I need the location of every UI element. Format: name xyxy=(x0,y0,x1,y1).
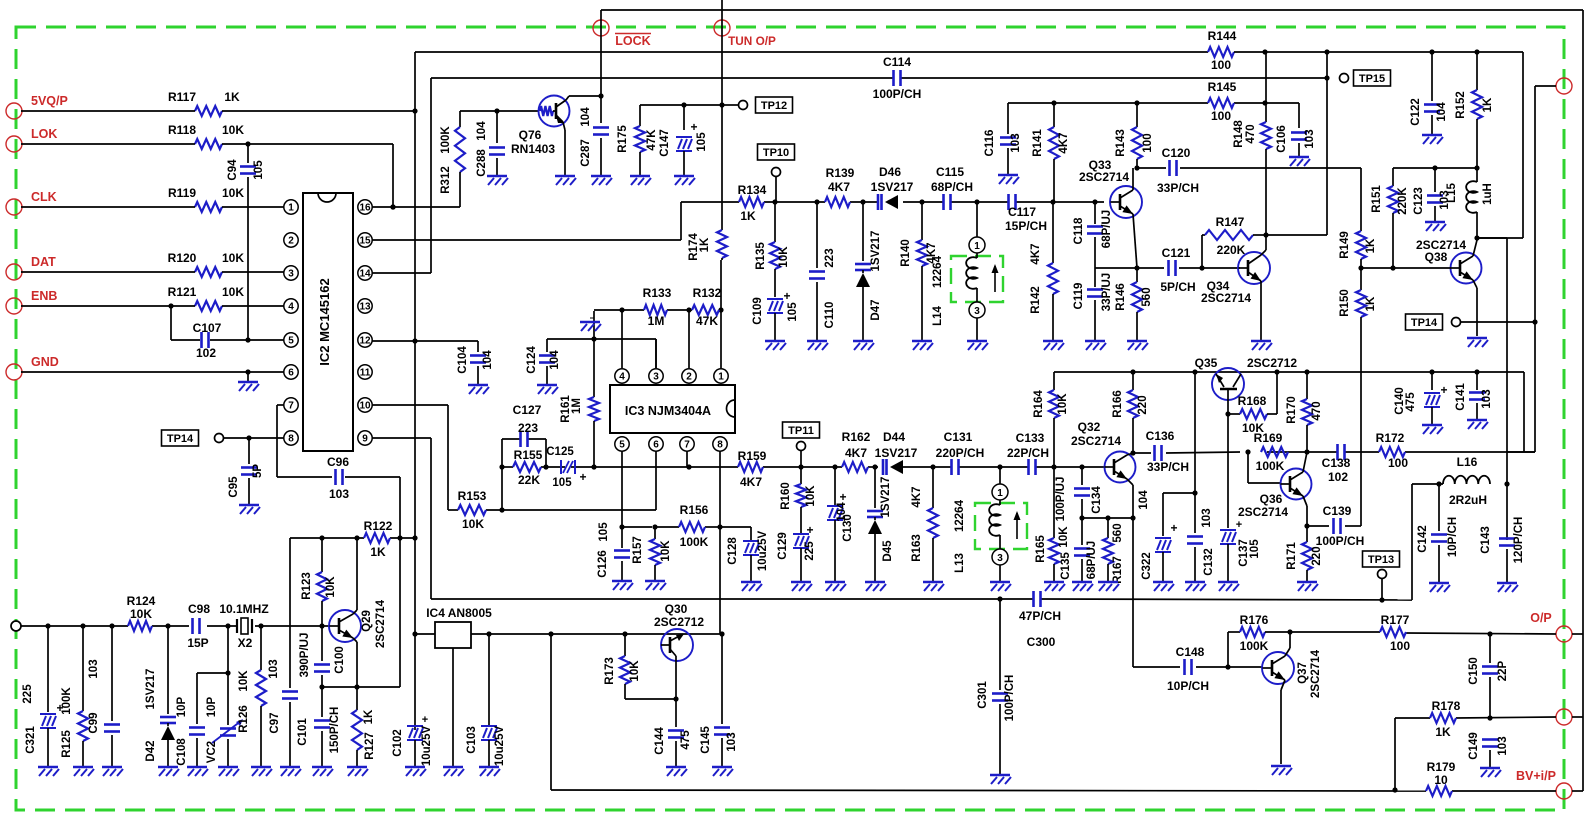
svg-text:R132: R132 xyxy=(693,286,722,300)
inductor L16 xyxy=(1443,455,1510,507)
svg-text:C128: C128 xyxy=(727,537,739,565)
wire emitter row xyxy=(322,538,400,687)
resistor R149 xyxy=(1339,231,1377,271)
svg-text:3: 3 xyxy=(997,553,1003,564)
svg-text:X2: X2 xyxy=(238,636,253,650)
svg-text:220K: 220K xyxy=(1217,243,1246,257)
svg-text:4: 4 xyxy=(619,372,625,383)
svg-text:R166: R166 xyxy=(1112,390,1124,418)
IC2 pin 5 xyxy=(284,333,298,347)
resistor R117 xyxy=(168,90,240,116)
svg-text:R119: R119 xyxy=(168,186,196,200)
wire Q37 emitter xyxy=(1281,680,1285,764)
capacitor C120 xyxy=(1157,146,1199,195)
svg-text:C99: C99 xyxy=(88,712,100,733)
ground C287 xyxy=(591,176,612,185)
svg-text:O/P: O/P xyxy=(1530,611,1552,625)
capacitor C114 xyxy=(873,55,922,101)
svg-text:1K: 1K xyxy=(363,709,375,724)
svg-text:15P: 15P xyxy=(187,636,208,650)
svg-text:1SV217: 1SV217 xyxy=(880,477,892,518)
ground C130 xyxy=(825,582,846,591)
resistor R169 labels xyxy=(1254,431,1285,473)
capacitor C131 xyxy=(936,430,985,475)
svg-text:10K: 10K xyxy=(778,246,790,268)
wire IC4 rail xyxy=(415,631,722,724)
capacitor C140 xyxy=(1394,372,1448,424)
svg-text:5: 5 xyxy=(288,336,294,347)
svg-text:C143: C143 xyxy=(1480,526,1492,554)
capacitor C122 xyxy=(1410,52,1448,134)
test point TP11 xyxy=(783,422,820,467)
capacitor C134 xyxy=(1055,467,1103,521)
connector DAT xyxy=(6,255,56,280)
IC2 pin 14 xyxy=(358,266,372,280)
svg-text:470: 470 xyxy=(1311,401,1323,420)
svg-text:220: 220 xyxy=(1137,395,1149,414)
svg-text:103: 103 xyxy=(1201,508,1213,527)
svg-text:+: + xyxy=(806,523,813,537)
svg-text:2R2uH: 2R2uH xyxy=(1449,493,1487,507)
svg-text:2SC2714: 2SC2714 xyxy=(1079,170,1129,184)
svg-text:103: 103 xyxy=(1010,133,1022,152)
svg-text:C117: C117 xyxy=(1008,205,1036,219)
svg-text:475: 475 xyxy=(1405,392,1417,412)
capacitor C109 xyxy=(752,289,799,340)
svg-text:105: 105 xyxy=(552,477,572,489)
svg-text:10: 10 xyxy=(359,401,371,412)
svg-text:22P: 22P xyxy=(1497,660,1509,681)
svg-text:10.1MHZ: 10.1MHZ xyxy=(219,602,268,616)
wire Q38 collector xyxy=(1473,240,1477,256)
svg-text:5P/CH: 5P/CH xyxy=(1160,280,1195,294)
svg-text:R135: R135 xyxy=(755,242,767,270)
capacitor C94 xyxy=(227,144,265,340)
top bus wire to right edge xyxy=(601,10,1583,791)
resistor R144 xyxy=(1208,29,1237,72)
ground R126 xyxy=(251,767,272,776)
IC2 pin 16 xyxy=(358,200,372,214)
svg-text:105: 105 xyxy=(598,522,610,542)
svg-text:C106: C106 xyxy=(1276,125,1288,153)
svg-text:TP15: TP15 xyxy=(1359,73,1385,85)
svg-text:1uH: 1uH xyxy=(1482,183,1494,205)
svg-text:R162: R162 xyxy=(842,430,871,444)
svg-text:10K: 10K xyxy=(462,517,484,531)
svg-text:1K: 1K xyxy=(1482,97,1494,112)
svg-text:100: 100 xyxy=(1390,639,1410,653)
svg-text:2: 2 xyxy=(686,372,692,383)
svg-text:4K7: 4K7 xyxy=(1058,132,1070,153)
wire main line 2 left xyxy=(546,464,597,469)
svg-text:R123: R123 xyxy=(301,572,313,600)
resistor R166 xyxy=(1112,372,1149,456)
svg-text:R175: R175 xyxy=(617,125,629,153)
capacitor C149 xyxy=(1468,732,1509,767)
svg-text:2SC2714: 2SC2714 xyxy=(1071,434,1121,448)
ground C321 xyxy=(38,767,59,776)
ground R167 xyxy=(1098,582,1119,591)
svg-text:1SV217: 1SV217 xyxy=(871,180,914,194)
resistor R170 xyxy=(1286,372,1323,452)
test point TP13 xyxy=(1363,551,1400,600)
wire C322 column xyxy=(1163,372,1198,536)
ground C126 xyxy=(612,581,633,590)
resistor R141 xyxy=(1032,103,1070,202)
capacitor C103 xyxy=(466,634,506,766)
capacitor C125 xyxy=(546,446,586,489)
svg-text:C102: C102 xyxy=(392,729,404,757)
capacitor C110 xyxy=(809,202,836,340)
svg-text:C129: C129 xyxy=(777,532,789,560)
resistor R143 xyxy=(1115,103,1154,171)
svg-text:68P/UJ: 68P/UJ xyxy=(1086,541,1098,579)
resistor R172 xyxy=(1379,447,1405,457)
svg-text:C301: C301 xyxy=(977,681,989,709)
wire C136 row xyxy=(1133,449,1535,454)
svg-text:10P: 10P xyxy=(176,696,188,717)
svg-text:100P/CH: 100P/CH xyxy=(873,87,922,101)
svg-text:100: 100 xyxy=(1388,456,1408,470)
wire C120 net xyxy=(1137,168,1361,231)
svg-text:C136: C136 xyxy=(1146,429,1175,443)
svg-text:C115: C115 xyxy=(936,165,964,179)
capacitor C143 xyxy=(1480,517,1525,582)
svg-text:R125: R125 xyxy=(61,730,73,758)
resistor R162 xyxy=(842,430,871,472)
svg-text:C119: C119 xyxy=(1073,283,1085,310)
wire IC3 pin3 riser xyxy=(655,339,657,368)
svg-text:C108: C108 xyxy=(176,738,188,766)
svg-text:22K: 22K xyxy=(518,473,540,487)
wire Q32 collector xyxy=(1127,453,1133,455)
ground R140 xyxy=(912,341,933,350)
wire Q29 emitter xyxy=(353,638,360,690)
svg-text:C104: C104 xyxy=(457,346,469,374)
ground L13 xyxy=(990,582,1011,591)
capacitor C104 xyxy=(457,341,494,384)
svg-text:4K7: 4K7 xyxy=(828,180,850,194)
IC2 pin 8 xyxy=(284,431,298,445)
wire bottom rail riser xyxy=(550,634,552,790)
svg-text:C109: C109 xyxy=(752,297,764,325)
resistor R179 xyxy=(1426,760,1456,796)
svg-text:TUN O/P: TUN O/P xyxy=(728,34,776,48)
ground C322 xyxy=(1153,582,1174,591)
wire pin12 xyxy=(372,338,478,343)
transistor Q33 xyxy=(1079,158,1142,218)
capacitor C287 xyxy=(580,96,609,175)
svg-text:C114: C114 xyxy=(883,55,911,69)
resistor R155 xyxy=(513,448,543,487)
ground R171 xyxy=(1297,582,1318,591)
resistor R121 xyxy=(168,285,245,311)
svg-text:C126: C126 xyxy=(597,550,609,578)
svg-text:3: 3 xyxy=(653,372,659,383)
transistor Q37 xyxy=(1262,649,1322,698)
resistor R164 xyxy=(1033,372,1069,467)
IC3 pin 3 xyxy=(649,369,663,383)
svg-text:2SC2714: 2SC2714 xyxy=(1310,649,1322,698)
resistor R139 xyxy=(825,166,855,207)
resistor R146 xyxy=(1115,268,1153,340)
ground C116 xyxy=(998,175,1019,184)
svg-text:1K: 1K xyxy=(224,90,240,104)
svg-text:104: 104 xyxy=(580,107,592,127)
connector GND xyxy=(6,355,59,380)
ground C140 xyxy=(1422,425,1443,434)
capacitor C100 xyxy=(299,626,346,690)
svg-text:10K: 10K xyxy=(222,186,244,200)
ground C135 xyxy=(1072,582,1093,591)
resistor R159 xyxy=(738,449,767,489)
svg-text:Q32: Q32 xyxy=(1078,420,1101,434)
capacitor C123 xyxy=(1413,168,1451,221)
ground C95 xyxy=(239,505,260,514)
ground C147 xyxy=(674,176,695,185)
IC2 pin 13 xyxy=(358,299,372,313)
svg-text:D46: D46 xyxy=(879,165,901,179)
svg-text:16: 16 xyxy=(359,203,371,214)
ground C97 xyxy=(280,767,301,776)
ground D45 xyxy=(865,582,886,591)
wire output row xyxy=(1290,631,1556,636)
svg-text:R148: R148 xyxy=(1233,120,1245,148)
connector CLK xyxy=(6,190,57,215)
wire Q33 emitter xyxy=(1133,214,1137,268)
svg-text:220K: 220K xyxy=(1397,187,1409,215)
svg-text:LOCK: LOCK xyxy=(615,34,650,48)
diode D45 xyxy=(867,467,894,581)
resistor R172 labels xyxy=(1376,431,1409,470)
svg-text:11: 11 xyxy=(360,368,371,379)
svg-text:100K: 100K xyxy=(1240,639,1269,653)
IC3 pin 2 xyxy=(682,369,696,383)
parallel C127 R155 box xyxy=(499,431,548,510)
wire y78 bus xyxy=(431,75,1330,80)
svg-text:102: 102 xyxy=(1328,470,1348,484)
connector LOK xyxy=(6,127,57,152)
connector TUN O/P xyxy=(714,20,776,48)
transistor Q30 xyxy=(654,602,704,699)
resistor R173 xyxy=(604,634,679,702)
svg-text:6: 6 xyxy=(653,440,659,451)
svg-text:R164: R164 xyxy=(1033,390,1045,418)
resistor R167 xyxy=(1103,518,1124,584)
resistor R150 xyxy=(1339,268,1377,526)
resistor R134 xyxy=(738,183,767,223)
wire 5V bus vertical xyxy=(412,52,417,730)
ground IC2 GND xyxy=(238,372,259,391)
wire pin14 riser xyxy=(372,78,431,273)
svg-text:10K: 10K xyxy=(629,660,641,682)
svg-text:R124: R124 xyxy=(127,594,156,608)
ground Q38 xyxy=(1467,338,1488,347)
wire Q76 collector xyxy=(569,93,604,98)
diode D44 xyxy=(875,430,918,475)
capacitor C145 xyxy=(700,631,738,766)
resistor R142 xyxy=(1030,202,1058,340)
IC3 pin 5 xyxy=(615,437,629,451)
resistor R118 xyxy=(168,123,244,149)
svg-text:R168: R168 xyxy=(1238,394,1267,408)
diode D42 xyxy=(145,626,176,766)
wire C148 feed xyxy=(1133,664,1262,669)
resistor R168 xyxy=(1225,372,1277,435)
svg-text:103: 103 xyxy=(329,487,349,501)
wire crystal rail xyxy=(21,623,329,628)
crystal X2 xyxy=(219,602,268,650)
svg-text:+: + xyxy=(1440,383,1447,397)
svg-text:10u25V: 10u25V xyxy=(421,726,433,767)
svg-text:100K: 100K xyxy=(61,687,73,715)
connector ENB xyxy=(6,289,57,314)
svg-text:R133: R133 xyxy=(643,286,672,300)
ground C122 xyxy=(1422,135,1443,144)
transistor Q32 xyxy=(1071,420,1136,483)
resistor R151 xyxy=(1371,168,1409,271)
svg-text:R151: R151 xyxy=(1371,185,1383,213)
svg-text:1SV217: 1SV217 xyxy=(870,231,882,272)
transistor Q35 xyxy=(1195,356,1298,414)
svg-text:R122: R122 xyxy=(364,519,393,533)
svg-text:47K: 47K xyxy=(696,314,718,328)
svg-text:C288: C288 xyxy=(476,149,488,177)
svg-text:1M: 1M xyxy=(571,398,583,414)
wire emitter row y518 xyxy=(1079,515,1135,520)
wire pin16 xyxy=(372,204,460,209)
svg-text:12264: 12264 xyxy=(932,255,944,288)
svg-text:R140: R140 xyxy=(900,239,912,267)
wire Q34 emitter xyxy=(1260,281,1262,340)
wire TP15 drop xyxy=(1263,49,1329,237)
svg-text:7: 7 xyxy=(288,401,294,412)
svg-text:105: 105 xyxy=(696,132,708,152)
test point TP14 (right) xyxy=(1406,314,1536,330)
ground Q34 xyxy=(1251,341,1272,350)
wire pin6 R153 row xyxy=(448,449,656,513)
svg-text:100K: 100K xyxy=(1256,459,1285,473)
IC3 pin 1 xyxy=(714,369,728,383)
svg-text:105: 105 xyxy=(1249,539,1261,559)
wire R144 net xyxy=(1234,49,1523,240)
capacitor C130 xyxy=(827,464,854,581)
svg-text:104: 104 xyxy=(1138,490,1150,510)
IC3 pin 6 xyxy=(649,437,663,451)
svg-text:10K: 10K xyxy=(660,540,672,562)
svg-text:Q30: Q30 xyxy=(665,602,688,616)
svg-text:3: 3 xyxy=(974,306,980,317)
ground C99 xyxy=(102,767,123,776)
resistor R123 xyxy=(301,538,337,626)
svg-text:1K: 1K xyxy=(740,209,756,223)
capacitor C147 xyxy=(659,105,708,175)
ground C128 xyxy=(741,582,762,591)
svg-text:+: + xyxy=(839,490,846,504)
svg-text:Q76: Q76 xyxy=(519,128,542,142)
ground C104 xyxy=(468,385,489,394)
svg-text:9: 9 xyxy=(362,434,368,445)
test point TP12 xyxy=(739,97,793,113)
wire R178 row xyxy=(1392,715,1556,792)
ground C149 xyxy=(1480,768,1501,777)
svg-text:2SC2714: 2SC2714 xyxy=(1238,505,1288,519)
svg-text:R149: R149 xyxy=(1339,231,1351,259)
svg-text:22P/CH: 22P/CH xyxy=(1007,446,1049,460)
svg-text:104: 104 xyxy=(476,121,488,141)
diode D46 xyxy=(871,165,914,210)
svg-text:2: 2 xyxy=(288,236,294,247)
ground C101 xyxy=(312,767,333,776)
wire IC3 pin7 riser xyxy=(686,451,688,467)
svg-text:104: 104 xyxy=(549,350,561,370)
svg-text:R126: R126 xyxy=(238,705,250,733)
capacitor C107 xyxy=(171,306,284,360)
svg-text:R146: R146 xyxy=(1115,283,1127,311)
wire Q36 emitter xyxy=(1303,496,1310,542)
svg-text:R127: R127 xyxy=(364,732,376,760)
svg-text:100P/CH: 100P/CH xyxy=(1004,675,1016,722)
capacitor C124 xyxy=(526,339,561,384)
svg-text:D44: D44 xyxy=(883,430,905,444)
svg-text:R120: R120 xyxy=(168,251,197,265)
svg-text:33P/CH: 33P/CH xyxy=(1157,181,1199,195)
svg-text:R172: R172 xyxy=(1376,431,1405,445)
resistor R160 xyxy=(780,467,817,534)
capacitor C99 xyxy=(88,626,120,766)
IC2 pin 1 xyxy=(284,200,298,214)
ground L14 xyxy=(967,341,988,350)
svg-text:10P: 10P xyxy=(206,696,218,717)
resistor R126 xyxy=(238,626,266,766)
IC3 pin 4 xyxy=(615,369,629,383)
wire pin9 riser xyxy=(372,438,431,599)
ground C119 xyxy=(1085,341,1106,350)
wire IC4 ground leg xyxy=(452,648,454,766)
wire LOCK vertical xyxy=(600,10,602,96)
ground C143 xyxy=(1497,583,1518,592)
ground R163 xyxy=(923,582,944,591)
svg-text:R312: R312 xyxy=(440,166,452,194)
svg-text:ENB: ENB xyxy=(31,289,57,303)
svg-text:C97: C97 xyxy=(269,712,281,733)
IC2 pin 15 xyxy=(358,233,372,247)
wire R145 net xyxy=(1008,100,1299,128)
svg-text:7: 7 xyxy=(684,440,690,451)
svg-text:R157: R157 xyxy=(632,536,644,564)
svg-text:2SC2714: 2SC2714 xyxy=(1201,291,1251,305)
svg-text:C149: C149 xyxy=(1468,732,1480,760)
capacitor C137 xyxy=(1220,414,1261,581)
svg-text:100K: 100K xyxy=(680,535,709,549)
wire Q76 base xyxy=(460,108,539,113)
resistor R163 xyxy=(911,467,938,581)
IC3 pin 8 xyxy=(713,437,727,451)
resistor R124 xyxy=(127,594,156,631)
ground C129 xyxy=(791,582,812,591)
resistor R122 xyxy=(364,519,393,559)
svg-text:560: 560 xyxy=(1141,287,1153,306)
svg-text:LOK: LOK xyxy=(31,127,57,141)
svg-text:12264: 12264 xyxy=(954,499,966,532)
capacitor C106 xyxy=(1276,125,1316,156)
diode D47 xyxy=(855,202,882,340)
wire Q29 collector xyxy=(353,538,357,614)
svg-text:TP11: TP11 xyxy=(788,425,814,437)
svg-text:C110: C110 xyxy=(824,302,836,329)
svg-text:6: 6 xyxy=(288,368,294,379)
svg-text:1SV217: 1SV217 xyxy=(145,669,157,710)
